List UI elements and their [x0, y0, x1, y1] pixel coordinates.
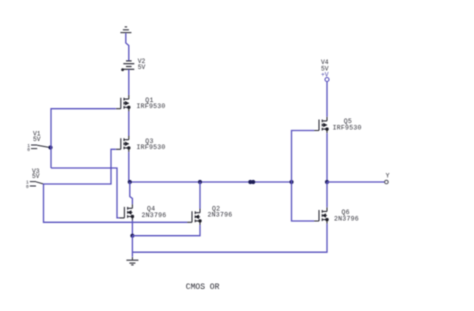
- wire Q2 drain to bus: [199, 182, 201, 209]
- transistor Q4 (NMOS 2N3796): [119, 204, 134, 221]
- battery V2: [123, 61, 134, 69]
- svg-text:IRF9530: IRF9530: [137, 103, 166, 110]
- wire Q1 source to Q3 drain: [128, 112, 130, 136]
- svg-text:IRF9530: IRF9530: [333, 124, 362, 131]
- wire inverter gates (Q5 gate to Q6 gate): [292, 131, 315, 222]
- node dot Q2 drain junction: [198, 180, 202, 184]
- wire Q6 drain to Y node: [326, 182, 328, 207]
- wire V3 down to Q2 gate: [44, 184, 188, 222]
- wire Q3 source to NOR node: [128, 152, 130, 182]
- wire V1 up to Q1 gate: [51, 109, 116, 168]
- wire V4 to Q5 drain: [326, 82, 328, 117]
- wire V1 down to Q4 gate: [51, 168, 119, 218]
- transistor Q2 (NMOS 2N3796): [187, 209, 202, 226]
- svg-text:5V: 5V: [138, 64, 146, 71]
- svg-text:5V: 5V: [33, 136, 41, 143]
- terminal Y: [385, 180, 389, 184]
- wire Q4 source down: [131, 221, 133, 236]
- svg-text:2N3796: 2N3796: [334, 215, 359, 222]
- svg-text:5V: 5V: [32, 173, 40, 180]
- wire Q2 source to junction: [132, 225, 200, 236]
- wire junction to ground: [131, 236, 133, 257]
- svg-text:Y: Y: [386, 172, 390, 179]
- transistor Q3 (PMOS IRF9530): [116, 136, 131, 153]
- wire Q5 source to Y node: [326, 133, 328, 182]
- wire Y output: [327, 181, 385, 183]
- svg-text:IRF9530: IRF9530: [137, 144, 166, 151]
- switch source V1: [31, 145, 51, 149]
- node dot inverter input: [289, 180, 293, 184]
- svg-text:0: 0: [26, 184, 29, 190]
- ground GND2: [126, 257, 138, 265]
- wire battery to Q1 drain: [128, 70, 130, 95]
- node dot Q4/Q2 source junction: [130, 234, 134, 238]
- wire V3 to Q3 gate: [44, 149, 116, 184]
- wire GND1 to battery V2: [126, 33, 129, 60]
- wire ground return to Q6 source: [132, 224, 327, 252]
- svg-text:2N3796: 2N3796: [142, 212, 167, 219]
- node dot Q3/Q4 junction: [128, 180, 132, 184]
- switch source V3: [30, 182, 44, 186]
- ground GND1 top: [120, 27, 131, 33]
- node dot mid-bus (double): [248, 180, 252, 184]
- wire NOR node to Q4 drain: [130, 182, 133, 204]
- transistor Q1 (PMOS IRF9530): [116, 95, 131, 112]
- node dot Y junction: [325, 180, 329, 184]
- svg-text:CMOS OR: CMOS OR: [186, 283, 220, 292]
- wire NOR bus: [129, 181, 292, 183]
- svg-text:0: 0: [27, 147, 30, 153]
- transistor Q5 (PMOS IRF9530): [314, 117, 329, 134]
- transistor Q6 (NMOS 2N3796): [314, 207, 329, 224]
- svg-text:2N3796: 2N3796: [208, 212, 233, 219]
- node V1 junction dot: [48, 145, 52, 149]
